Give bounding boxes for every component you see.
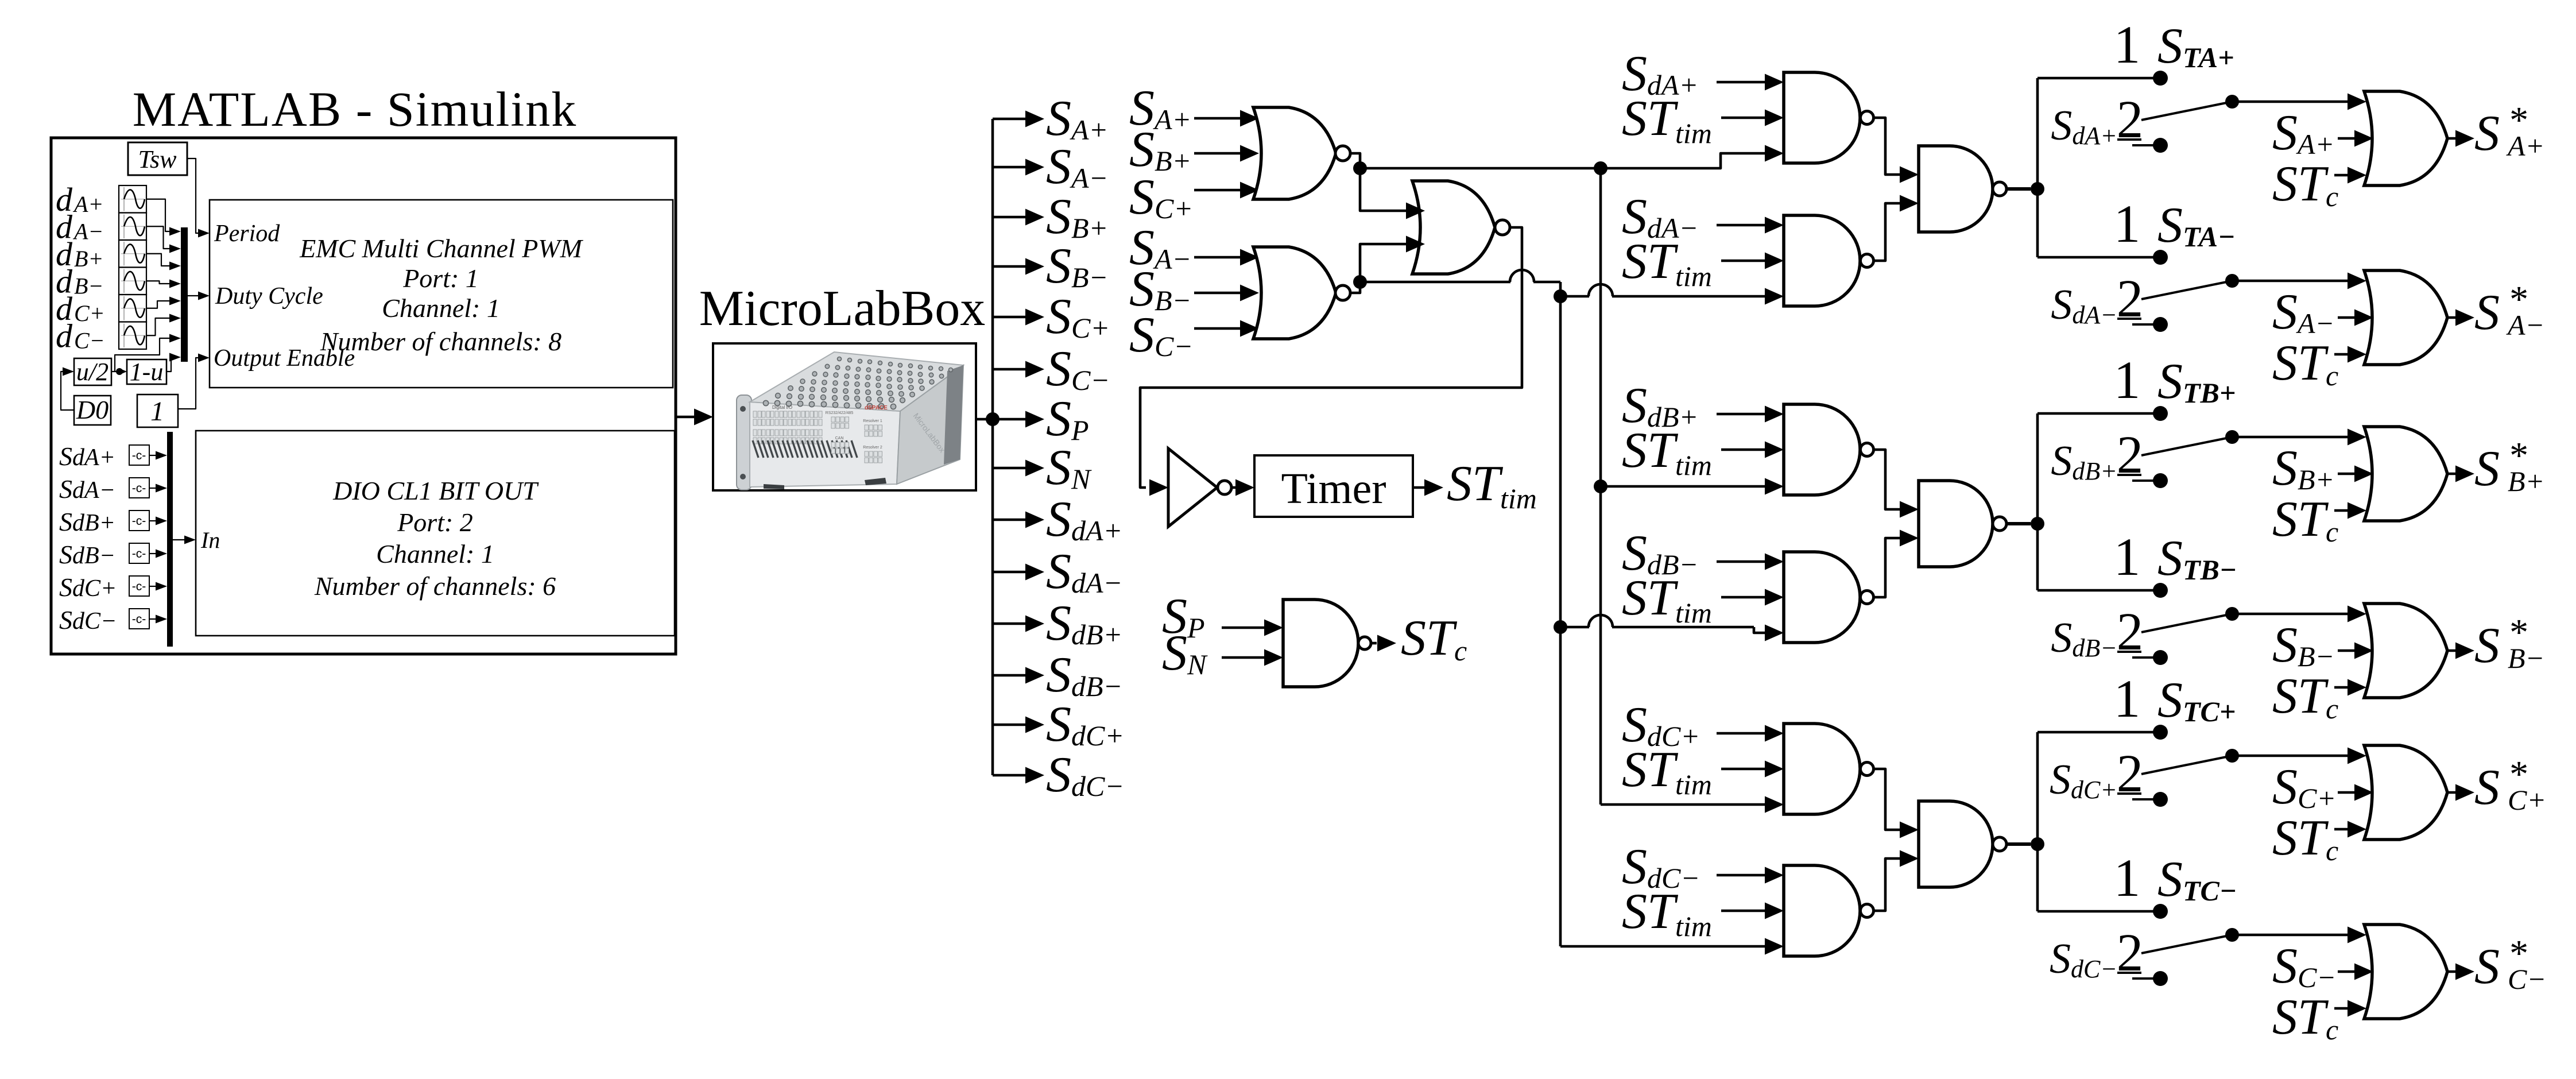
svg-text:S: S: [2474, 285, 2500, 341]
svg-text:-c-: -c-: [132, 613, 146, 626]
svg-text:A+: A+: [72, 191, 103, 217]
svg-text:1: 1: [2114, 528, 2141, 587]
svg-text:Port: 1: Port: 1: [402, 264, 479, 293]
svg-text:Timer: Timer: [1281, 465, 1386, 513]
svg-text:SdB+: SdB+: [59, 507, 115, 536]
svg-text:MATLAB - Simulink: MATLAB - Simulink: [133, 82, 578, 137]
svg-text:-c-: -c-: [132, 580, 146, 593]
svg-text:A+: A+: [2506, 130, 2544, 162]
svg-text:1: 1: [150, 396, 164, 427]
svg-text:SdC−: SdC−: [59, 605, 117, 635]
svg-text:dSPACE: dSPACE: [865, 405, 888, 411]
svg-text:C+: C+: [2508, 784, 2546, 816]
svg-text:S: S: [2474, 106, 2500, 161]
svg-text:SdC+: SdC+: [59, 573, 117, 602]
svg-text:C−: C−: [74, 327, 105, 353]
svg-text:MicroLabBox: MicroLabBox: [699, 281, 986, 337]
svg-text:Port: 2: Port: 2: [397, 508, 473, 537]
svg-text:B+: B+: [74, 246, 103, 272]
svg-text:SdB−: SdB−: [59, 540, 115, 569]
svg-text:-c-: -c-: [132, 547, 146, 560]
svg-text:1: 1: [2114, 670, 2141, 729]
svg-text:Duty Cycle: Duty Cycle: [215, 283, 323, 310]
svg-text:EMC Multi Channel PWM: EMC Multi Channel PWM: [299, 234, 584, 263]
svg-text:S: S: [2474, 618, 2500, 674]
svg-text:A−: A−: [72, 218, 103, 244]
svg-text:C−: C−: [2508, 963, 2546, 995]
svg-text:Period: Period: [214, 221, 280, 247]
svg-text:Channel: 1: Channel: 1: [382, 293, 500, 323]
svg-text:In: In: [200, 527, 220, 553]
svg-text:1: 1: [2114, 849, 2141, 908]
svg-text:A−: A−: [2506, 309, 2544, 341]
svg-text:S: S: [2474, 441, 2500, 497]
svg-text:Resolver 1: Resolver 1: [863, 419, 882, 423]
svg-text:CAN: CAN: [835, 436, 844, 440]
svg-text:1: 1: [2114, 195, 2141, 254]
svg-text:Digital I/O: Digital I/O: [772, 405, 792, 410]
svg-text:Tsw: Tsw: [138, 145, 177, 173]
svg-text:Number of channels: 6: Number of channels: 6: [314, 571, 556, 601]
svg-text:C+: C+: [74, 300, 105, 326]
svg-text:SdA−: SdA−: [59, 474, 115, 504]
svg-text:-c-: -c-: [132, 449, 146, 462]
svg-text:DIO CL1 BIT OUT: DIO CL1 BIT OUT: [332, 476, 539, 505]
svg-text:1-u: 1-u: [130, 358, 164, 386]
svg-text:Resolver 2: Resolver 2: [863, 446, 882, 450]
svg-text:S: S: [2474, 939, 2500, 995]
svg-text:Number of channels: 8: Number of channels: 8: [320, 327, 561, 356]
svg-text:D0: D0: [76, 395, 109, 424]
svg-text:SdA+: SdA+: [59, 442, 115, 471]
svg-text:Channel: 1: Channel: 1: [376, 539, 494, 568]
svg-text:1: 1: [2114, 16, 2141, 75]
svg-text:S: S: [2474, 760, 2500, 815]
svg-text:B−: B−: [74, 273, 103, 299]
svg-text:RS232/422/485: RS232/422/485: [826, 411, 854, 415]
svg-text:1: 1: [2114, 351, 2141, 410]
svg-text:u/2: u/2: [76, 358, 109, 386]
svg-text:B+: B+: [2508, 465, 2544, 497]
svg-text:-c-: -c-: [132, 482, 146, 495]
svg-text:d: d: [56, 317, 73, 354]
svg-text:-c-: -c-: [132, 515, 146, 528]
svg-text:B−: B−: [2508, 642, 2544, 674]
